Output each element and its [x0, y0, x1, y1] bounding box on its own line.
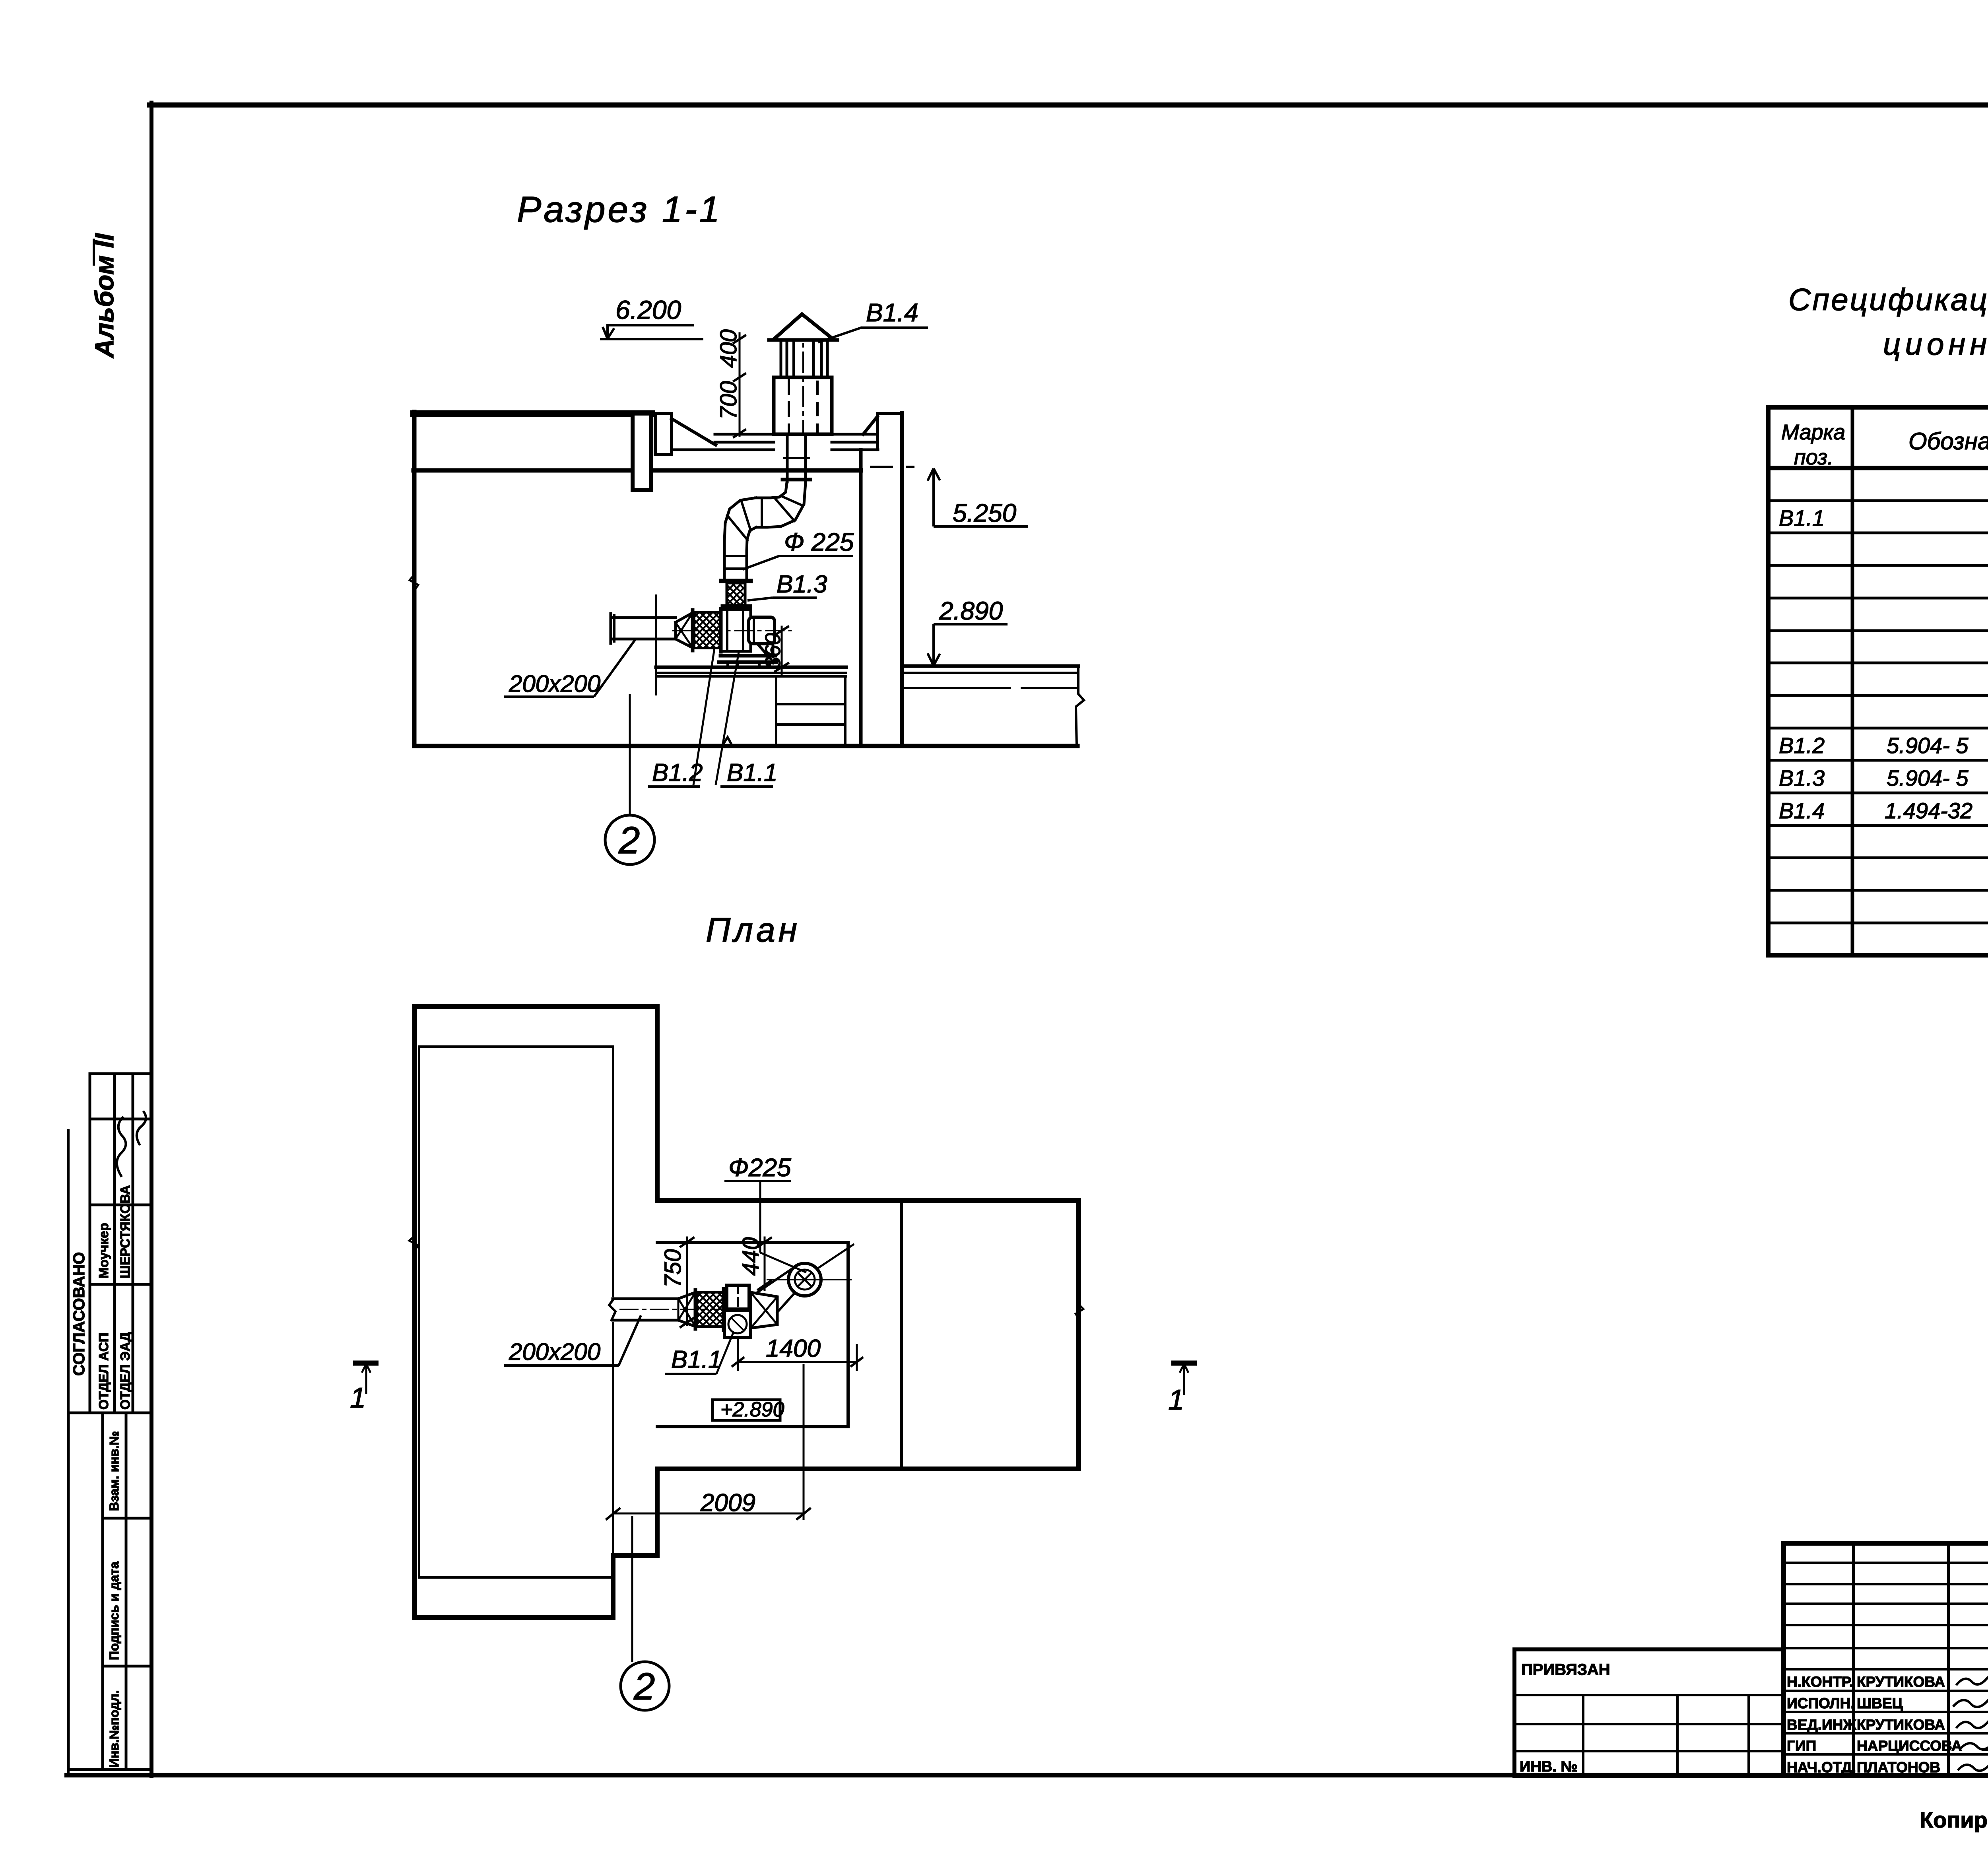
axis circle 2 (plan): [631, 1516, 633, 1662]
dim 440: [764, 1237, 766, 1290]
cowl support posts: [780, 340, 782, 377]
svg-text:В1.3: В1.3: [1779, 765, 1825, 791]
section mark 1 right: [1171, 1363, 1197, 1395]
svg-text:2: 2: [618, 819, 640, 862]
svg-text:В1.2: В1.2: [1779, 733, 1825, 758]
plan outer wall outline: [415, 1006, 1079, 1618]
exhaust shaft above roof: [774, 377, 832, 434]
svg-text:ШВЕЦ: ШВЕЦ: [1857, 1695, 1903, 1711]
dim 750: [686, 1237, 688, 1325]
sheet frame top: [149, 103, 1988, 108]
svg-text:Моучкер: Моучкер: [96, 1223, 111, 1278]
section mark 1 left: [353, 1363, 379, 1394]
inventory strip table: [68, 1413, 151, 1770]
svg-text:ИНВ. №: ИНВ. №: [1520, 1758, 1578, 1775]
sheet frame left: [149, 103, 153, 1776]
right wall of building: [876, 414, 879, 450]
svg-text:Копировал.: Копировал.: [1920, 1807, 1988, 1832]
privyazan table: [1514, 1649, 1784, 1776]
level box +2.890: [712, 1400, 780, 1420]
svg-text:2: 2: [633, 1665, 655, 1708]
spec row lines: [1768, 499, 1988, 502]
plan inner wall line left block: [419, 1045, 613, 1048]
duct 200x200 plan: [613, 1298, 678, 1300]
vertical duct below deck: [786, 434, 789, 482]
svg-text:200х200: 200х200: [509, 670, 600, 697]
transition cone plan: [678, 1292, 695, 1299]
svg-text:ПЛАТОНОВ: ПЛАТОНОВ: [1857, 1759, 1940, 1775]
fan housing B1.1: [721, 610, 751, 651]
transition cone: [676, 613, 693, 622]
sheet frame bottom: [67, 1773, 1988, 1777]
svg-text:Н.КОНТР.: Н.КОНТР.: [1787, 1674, 1853, 1690]
svg-text:КРУТИКОВА: КРУТИКОВА: [1857, 1674, 1945, 1690]
right floor edge with break: [1076, 666, 1084, 746]
svg-text:В1.1: В1.1: [1779, 505, 1825, 530]
signature table rows: [1784, 1562, 1988, 1564]
svg-text:НАРЦИССОВА: НАРЦИССОВА: [1857, 1738, 1962, 1754]
svg-text:200х200: 200х200: [509, 1338, 600, 1365]
svg-text:ГИП: ГИП: [1787, 1738, 1816, 1754]
svg-text:Инв.№подл.: Инв.№подл.: [107, 1690, 121, 1768]
dividing wall line: [900, 1200, 903, 1469]
svg-text:5.904- 5: 5.904- 5: [1887, 765, 1969, 791]
svg-text:6.200: 6.200: [615, 295, 681, 324]
svg-text:В1.4: В1.4: [1779, 798, 1825, 823]
svg-text:КРУТИКОВА: КРУТИКОВА: [1857, 1717, 1945, 1733]
axis circle 2 (section): [629, 694, 631, 814]
wall break marks: [409, 1236, 419, 1251]
svg-text:Взам. инв.№: Взам. инв.№: [107, 1431, 121, 1511]
duct 200x200 horizontal: [611, 616, 676, 619]
fan base frame: [720, 654, 775, 658]
svg-text:В1.1: В1.1: [727, 759, 778, 787]
svg-text:ционных установок: ционных установок: [1883, 326, 1988, 361]
parapet cap slope: [672, 419, 716, 445]
svg-text:В1.4: В1.4: [866, 298, 918, 327]
svg-text:Марка: Марка: [1781, 420, 1845, 444]
svg-text:700: 700: [716, 381, 742, 420]
duct elbow lower left: [724, 498, 755, 581]
svg-text:2.890: 2.890: [939, 596, 1003, 625]
svg-text:750: 750: [660, 1249, 686, 1288]
motor square plan: [724, 1311, 751, 1338]
svg-text:ОТДЕЛ ЭАД: ОТДЕЛ ЭАД: [118, 1332, 132, 1410]
dim 360: [781, 627, 783, 675]
flexible insert B1.2 plan: [694, 1290, 697, 1329]
motor: [749, 617, 775, 644]
roof top line left part: [414, 410, 652, 417]
dim 2009: [612, 1516, 614, 1558]
svg-text:В1.3: В1.3: [777, 571, 827, 598]
svg-text:В1.1: В1.1: [671, 1346, 722, 1373]
svg-text:Ф 225: Ф 225: [784, 528, 854, 556]
fan axis centerline: [673, 630, 791, 631]
duct elbow upper right: [756, 483, 806, 527]
svg-text:5.904- 5: 5.904- 5: [1887, 733, 1969, 758]
wall break mark: [410, 575, 418, 590]
left wall of building: [412, 412, 417, 746]
svg-text:1400: 1400: [766, 1335, 821, 1362]
duct axis centerline plan: [620, 1309, 751, 1310]
signatures squiggles: [1953, 1674, 1988, 1771]
svg-text:Спецификация отопительно-вент: Спецификация отопительно-вентиля-: [1788, 282, 1988, 317]
svg-text:ПРИВЯЗАН: ПРИВЯЗАН: [1521, 1661, 1610, 1678]
signature table columns: [1852, 1543, 1855, 1776]
leader from circle to corner: [817, 1245, 853, 1268]
shaft centerline: [802, 318, 804, 433]
svg-text:1: 1: [350, 1382, 366, 1414]
dimension 400/700 line: [739, 333, 741, 436]
floor slab right room: [902, 664, 1078, 668]
roof deck lines over fan room: [715, 433, 774, 436]
svg-text:360: 360: [761, 633, 785, 669]
outlet square flange plan: [727, 1285, 749, 1309]
hanging beam at roof: [633, 414, 651, 490]
foundation below fan: [775, 676, 777, 744]
svg-text:1.494-32: 1.494-32: [1885, 798, 1972, 823]
svg-text:ОТДЕЛ АСП: ОТДЕЛ АСП: [96, 1333, 111, 1410]
roof cowl B1.4 cone: [773, 314, 834, 340]
svg-text:поз.: поз.: [1794, 445, 1833, 469]
svg-text:1: 1: [1168, 1384, 1184, 1416]
left margin outer line: [67, 1129, 70, 1775]
svg-text:План: План: [706, 911, 800, 949]
svg-text:Обозначение: Обозначение: [1908, 428, 1988, 455]
svg-text:Разрез 1-1: Разрез 1-1: [517, 189, 722, 230]
fan room walls: [657, 1241, 848, 1244]
flexible insert B1.3: [721, 579, 751, 583]
dim 1400: [737, 1339, 739, 1371]
svg-text:НАЧ.ОТД.: НАЧ.ОТД.: [1787, 1759, 1856, 1775]
svg-text:400: 400: [716, 329, 742, 368]
floor slab fan room: [656, 666, 846, 669]
extension to 2009: [803, 1364, 805, 1520]
svg-text:ШЕРСТЯКОВА: ШЕРСТЯКОВА: [118, 1185, 132, 1278]
ground line: [414, 744, 1077, 748]
scroll to outlet circle: [756, 1269, 791, 1293]
svg-text:Ф225: Ф225: [728, 1153, 791, 1182]
signatures in approval table: [112, 1117, 130, 1177]
svg-text:Подпись и дата: Подпись и дата: [107, 1562, 121, 1660]
svg-text:2009: 2009: [700, 1489, 755, 1517]
fan scroll body plan: [751, 1292, 777, 1328]
ceiling line under roof: [414, 468, 861, 473]
title block frame: [1784, 1543, 1988, 1776]
parapet slope right near wall: [863, 416, 878, 434]
flexible insert B1.2: [691, 610, 695, 651]
spec table frame: [1768, 407, 1988, 955]
approval table (soglasovano): [90, 1074, 151, 1413]
platform edge line: [655, 596, 657, 694]
svg-text:ВЕД.ИНЖ: ВЕД.ИНЖ: [1787, 1717, 1856, 1733]
roof upstand left of shaft: [655, 414, 672, 455]
horizontal duct run joints: [761, 498, 763, 527]
motor support: [757, 644, 769, 657]
svg-text:5.250: 5.250: [953, 499, 1017, 527]
level mark 6.200: [0, 0, 0, 0]
svg-text:ИСПОЛН.: ИСПОЛН.: [1787, 1695, 1855, 1711]
svg-text:+2.890: +2.890: [720, 1398, 784, 1421]
outlet duct circle F225: [788, 1263, 821, 1296]
svg-text:СОГЛАСОВАНО: СОГЛАСОВАНО: [70, 1252, 88, 1376]
